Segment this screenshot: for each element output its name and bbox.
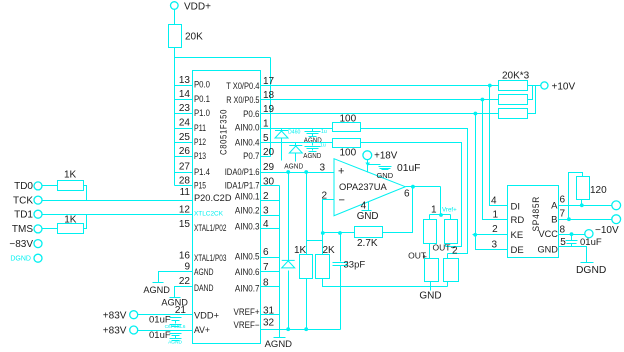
junction [338,231,342,235]
wire pin stub [261,314,280,316]
svg-text:22: 22 [179,276,191,287]
svg-text:GND: GND [357,211,379,222]
svg-text:100: 100 [340,114,357,125]
svg-text:−83V: −83V [9,239,33,250]
junction [580,203,584,207]
svg-text:XTAL1/P03: XTAL1/P03 [194,253,226,263]
svg-text:32: 32 [263,318,275,329]
wire VREF- net [261,329,341,331]
svg-text:OPA237UA: OPA237UA [339,181,388,192]
wire pin 5 AIN0.4 net [261,142,333,144]
wire pin stub [175,172,193,174]
junction [286,327,290,331]
svg-text:20K: 20K [185,32,203,43]
wire [528,85,541,87]
resistor 100 (AIN0.0) [333,123,361,132]
svg-text:XTAL1/P02: XTAL1/P02 [194,223,226,233]
svg-text:7: 7 [560,209,566,220]
wire [174,10,176,25]
svg-text:01uF: 01uF [149,330,171,341]
svg-text:4: 4 [491,196,497,207]
svg-text:AIN0.1: AIN0.1 [235,192,260,202]
resistor 2K [316,255,330,279]
resistor 100 (AIN0.4) [333,139,361,148]
svg-text:−: − [339,195,345,207]
svg-text:3: 3 [491,239,497,250]
svg-text:2: 2 [492,224,498,235]
svg-text:3: 3 [319,162,325,173]
wire P0.6 to KE [475,114,477,235]
wire pin stub [175,99,193,101]
junction [286,170,290,174]
svg-text:Vref+: Vref+ [442,207,457,214]
resistor ROa (upper left) [429,215,431,220]
svg-text:120: 120 [590,185,607,196]
svg-text:+83V: +83V [103,325,127,336]
capacitor C2 1uF clamp [312,143,314,146]
wire pin stub [175,142,193,144]
junction [570,232,574,236]
wire [174,58,176,86]
wire 1K-2K rung [307,240,323,242]
wire pin 9 [159,272,193,283]
svg-text:AIN0.6: AIN0.6 [235,267,260,277]
wire divider top bar [430,214,451,216]
svg-text:01uF: 01uF [149,315,171,326]
svg-text:B: B [551,214,557,225]
ground AGND (pin 9) [153,282,164,284]
svg-text:IDA0/P1.6: IDA0/P1.6 [225,167,260,177]
svg-text:DGND: DGND [576,265,606,276]
op-amp U2 OPA237UA [334,159,405,216]
svg-text:P0.0: P0.0 [194,80,210,90]
svg-text:TD1: TD1 [14,210,33,221]
connector port B [612,215,621,224]
svg-text:GND: GND [538,244,559,254]
resistor 1K (DAC) [306,173,308,255]
wire [174,48,176,58]
svg-text:VDD+: VDD+ [184,2,211,13]
wire pin 17 net [261,85,499,87]
wire [323,279,448,287]
wire pin stub [175,85,193,87]
diode D3 [288,173,290,261]
svg-text:28: 28 [179,175,191,186]
svg-text:01uF: 01uF [397,163,420,174]
wire [43,185,58,187]
wire GND pin 5 [559,247,587,263]
svg-text:AGND: AGND [161,297,188,307]
power port +18V [363,151,372,160]
svg-text:1K: 1K [294,245,307,256]
wire left pin bus rail [174,86,176,186]
resistor 2.7K [355,227,383,238]
diode D1 [281,129,283,131]
svg-text:33pF: 33pF [344,259,366,270]
power port -10V [585,230,593,238]
capacitor 33pF [340,233,342,262]
svg-text:XTLC2CK: XTLC2CK [194,211,224,218]
svg-text:IDA1/P1.7: IDA1/P1.7 [225,180,260,190]
wire pin stub [261,215,280,217]
svg-text:AGND: AGND [143,285,170,295]
svg-text:SP485R: SP485R [531,196,541,232]
svg-text:6: 6 [263,247,269,258]
svg-text:VREF−: VREF− [234,320,260,330]
power port VDD+ [171,2,179,10]
IC U3 SP485R [508,186,559,258]
svg-text:27: 27 [179,162,191,173]
svg-text:24: 24 [179,118,191,129]
svg-text:AGND: AGND [168,340,182,346]
svg-text:GND: GND [419,291,441,302]
svg-text:6: 6 [404,189,410,200]
svg-text:1u: 1u [320,143,326,149]
wire pin 29 to +input [261,172,335,174]
svg-text:TMS: TMS [12,224,33,235]
svg-text:4: 4 [361,201,367,212]
svg-text:15: 15 [179,219,191,230]
wire A net [559,205,612,207]
svg-text:R X0/P0.5: R X0/P0.5 [226,95,259,105]
svg-text:−10V: −10V [595,225,619,236]
svg-text:23: 23 [179,103,191,114]
wire [175,57,271,59]
junction [321,231,325,235]
svg-text:P13: P13 [194,151,206,161]
wire [569,173,583,220]
diode D2 [295,143,297,146]
wire KE [473,234,508,236]
svg-text:P15: P15 [194,180,206,190]
svg-text:C8051F350: C8051F350 [219,109,229,155]
wire [138,314,193,316]
wire op-amp pin 4 [368,202,370,211]
svg-text:RD: RD [511,215,525,226]
junction [304,170,308,174]
wire pin 20 stub [261,156,271,158]
junction [567,217,571,221]
ground AGND (pin 22) [170,297,181,299]
wire VCC net [559,234,585,236]
svg-text:16: 16 [179,251,191,262]
svg-text:P0.1: P0.1 [194,94,210,104]
capacitor 01uF (op-amp supply) [379,166,392,168]
svg-text:25: 25 [179,132,191,143]
wire pin stub [261,185,280,187]
wire pin 22 [175,287,193,298]
svg-text:P0.6: P0.6 [243,109,259,119]
ground GND (divider) [430,287,432,291]
resistor 20K [169,25,182,48]
svg-text:DGND: DGND [10,256,31,263]
wire [528,86,533,100]
wire pin stub [261,228,280,230]
svg-text:26: 26 [179,146,191,157]
svg-text:9: 9 [184,261,190,272]
wire pin stub [175,113,193,115]
svg-text:TCK: TCK [13,195,33,206]
svg-text:11: 11 [180,187,191,198]
svg-text:2: 2 [452,246,458,257]
svg-text:29: 29 [263,162,275,173]
wire pin 1 AIN0.0 net [261,128,333,130]
connector port A [612,201,621,210]
ground DGND [581,262,594,264]
svg-text:DI: DI [511,201,521,212]
wire [84,186,87,201]
svg-text:20K*3: 20K*3 [502,71,530,82]
resistor ROc (lower left) [425,259,439,282]
resistor ROd (lower right) [447,254,449,259]
svg-text:AGND: AGND [194,267,214,277]
wire pin 19 net [261,113,499,115]
wire output to divider top [440,187,442,215]
wire pin stub [261,257,280,259]
svg-text:TD0: TD0 [14,181,33,192]
junction [488,84,492,88]
svg-text:AGND: AGND [265,339,293,350]
svg-text:P1.4: P1.4 [194,167,210,177]
wire [43,228,58,230]
ground AGND (VREF-) [279,330,281,338]
wire output net [406,186,441,188]
wire right AIN bus rail [279,186,281,330]
svg-text:12: 12 [179,204,191,215]
wire [84,215,87,229]
resistor 120 termination [581,200,583,206]
power port +10V [541,82,548,89]
svg-text:AIN0.2: AIN0.2 [235,206,260,216]
wire feedback node [323,232,355,234]
resistor 1K (TMS) [58,224,84,234]
svg-text:AV+: AV+ [194,325,210,335]
svg-text:P11: P11 [194,123,206,133]
wire [270,58,272,157]
wire pin stub [261,271,280,273]
junction [481,98,485,102]
wire KE-DE strap [476,235,508,250]
svg-text:2K: 2K [323,245,336,256]
svg-text:1: 1 [431,205,437,216]
svg-text:AIN0.4: AIN0.4 [235,138,260,148]
junction [474,112,478,116]
svg-text:AIN0.5: AIN0.5 [235,252,260,262]
resistor ROb (upper right) [450,215,452,220]
wire [361,143,462,247]
svg-text:6: 6 [560,195,566,206]
svg-text:DE: DE [511,245,524,256]
svg-text:A: A [551,201,558,212]
junction [473,233,477,237]
svg-text:KE: KE [511,230,524,241]
svg-text:GND: GND [376,171,393,180]
svg-text:P0.7: P0.7 [243,151,259,161]
svg-text:DAND: DAND [194,283,214,293]
svg-text:P1.0: P1.0 [194,108,210,118]
svg-text:8: 8 [560,225,566,236]
svg-text:AGND: AGND [284,162,303,171]
svg-text:+10V: +10V [552,81,576,92]
svg-text:+18V: +18V [374,151,398,162]
svg-text:+83V: +83V [103,310,127,321]
wire pin stub [261,200,280,202]
wire pin 18 net [261,99,499,101]
capacitor C1 1uF clamp [312,129,314,132]
svg-text:AGND: AGND [303,151,321,160]
wire [383,187,413,233]
svg-text:P12: P12 [194,137,206,147]
wire TD1 net [43,214,193,216]
svg-text:T X0/P0.4: T X0/P0.4 [226,81,259,91]
wire [368,164,381,166]
wire pin stub [261,286,280,288]
wire [138,330,193,332]
resistor 20K*3 b [499,95,528,105]
wire pin stub [175,185,193,187]
svg-text:AIN0.0: AIN0.0 [235,123,260,133]
svg-text:13: 13 [179,75,191,86]
svg-text:D460: D460 [288,130,301,136]
svg-text:1u: 1u [321,129,327,135]
svg-text:14: 14 [179,89,191,100]
svg-text:AIN0.3: AIN0.3 [235,222,260,232]
resistor 1K (TD0) [58,181,84,191]
wire TCK net [43,200,193,202]
svg-text:1K: 1K [64,170,77,181]
svg-text:2.7K: 2.7K [357,238,378,249]
ground GND (op-amp pin4) [362,210,372,212]
svg-text:1: 1 [263,119,269,130]
capacitor 01uF (SP485R) [571,235,573,241]
wire pin stub [175,156,193,158]
svg-text:+: + [338,166,344,178]
svg-text:AIN0.7: AIN0.7 [235,284,260,294]
svg-text:VCC: VCC [539,229,559,239]
svg-text:P20.C2D: P20.C2D [194,193,232,203]
wire RX to RO [483,100,508,220]
wire op-amp V+ pin 7 [367,160,369,173]
wire [528,86,536,114]
wire [361,129,468,254]
wire pin stub [175,128,193,130]
svg-text:100: 100 [340,148,357,159]
svg-text:VREF+: VREF+ [234,307,260,317]
svg-text:1: 1 [492,209,498,220]
junction [439,213,443,217]
resistor 20K*3 c [499,109,528,119]
svg-text:1K: 1K [64,215,77,226]
wire [306,279,308,330]
IC U1 C8051F350 [193,71,261,344]
svg-text:VDD+: VDD+ [194,310,219,320]
junction [304,327,308,331]
wire TX to DI [490,86,508,206]
wire -input [323,200,335,255]
junction [411,185,415,189]
wire B net [559,219,612,221]
svg-text:3: 3 [263,206,269,217]
